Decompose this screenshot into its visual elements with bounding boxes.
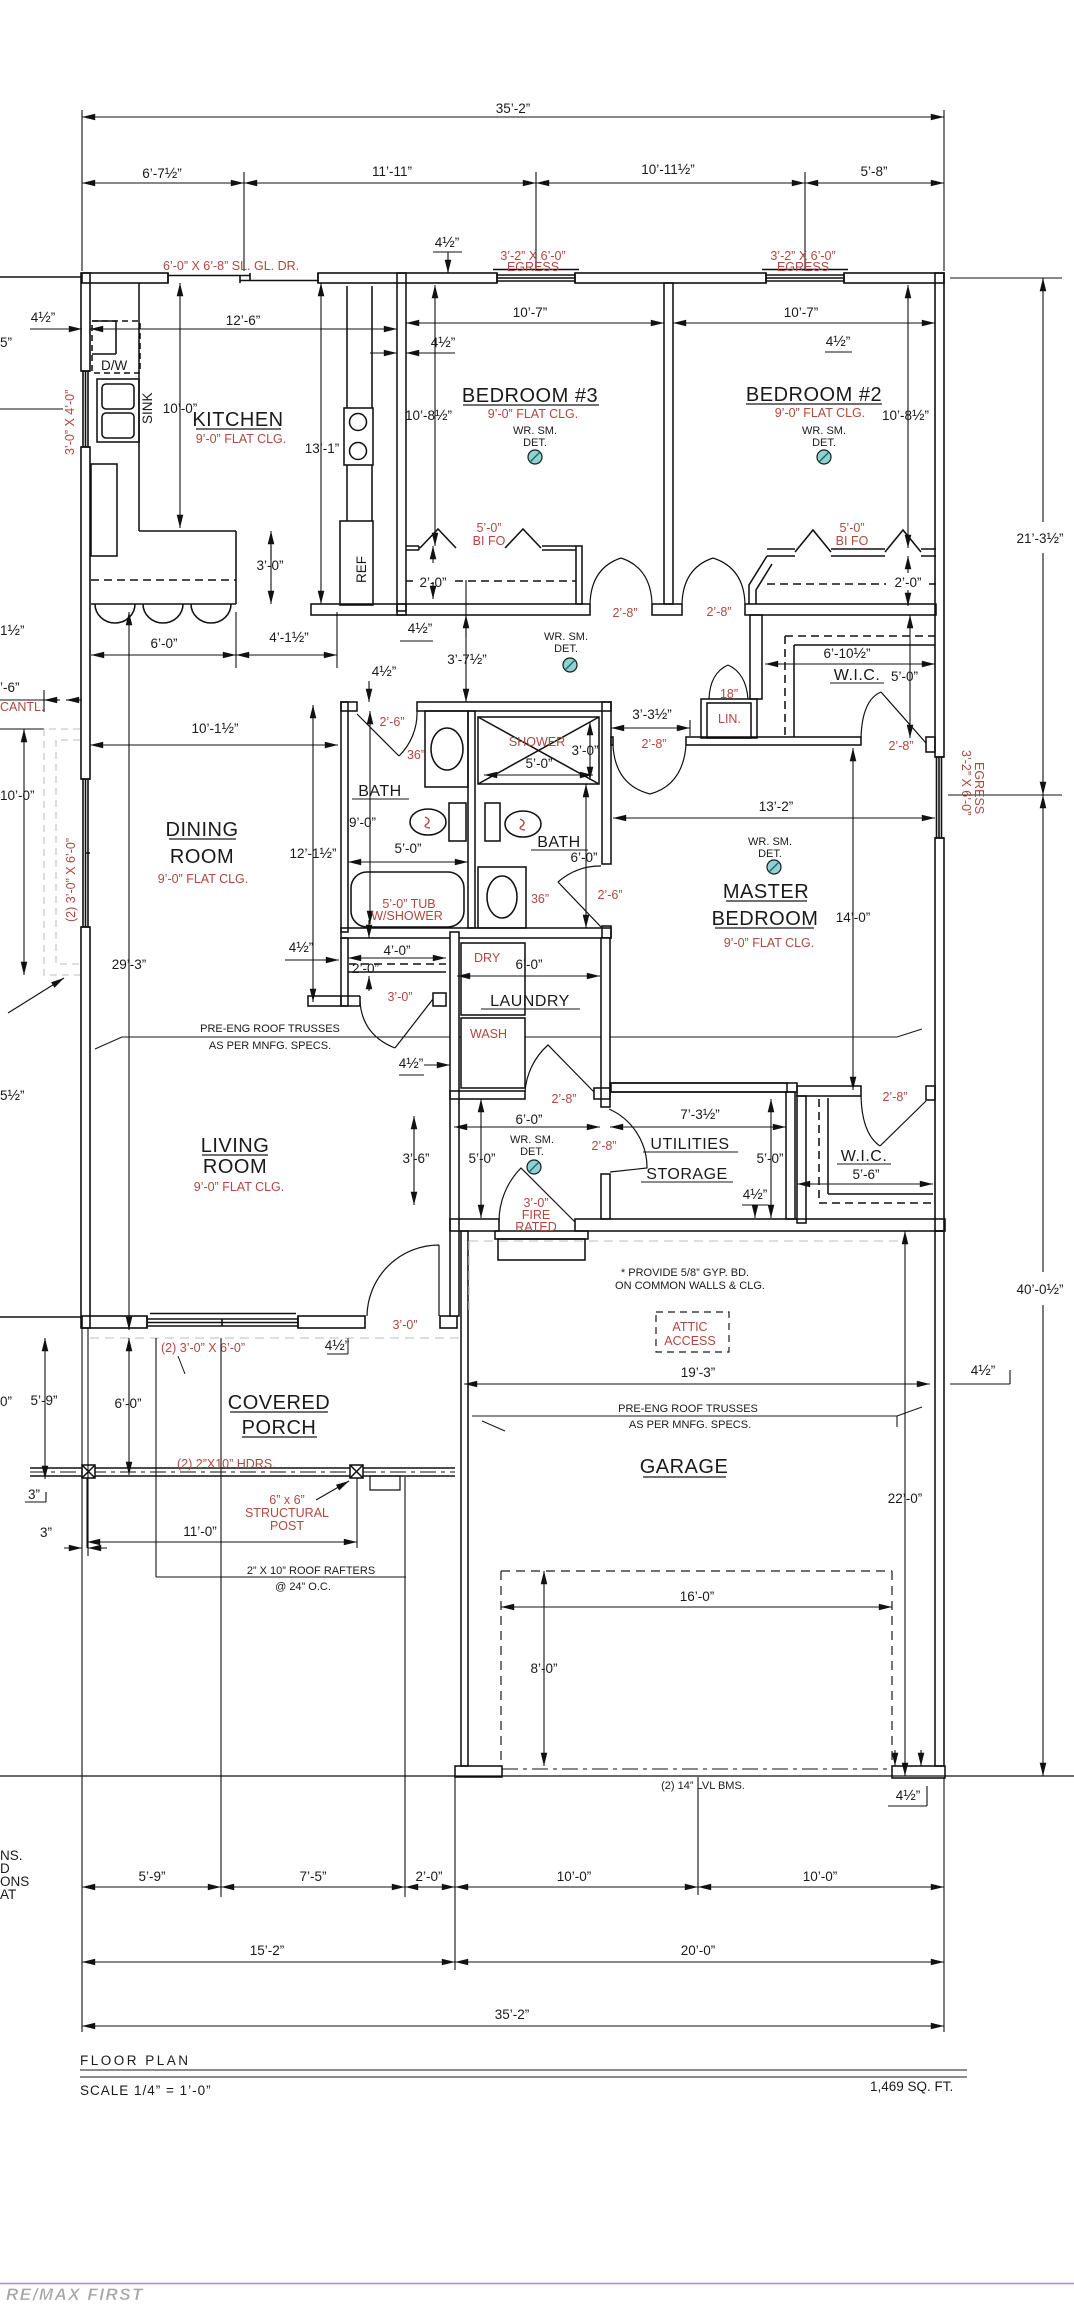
dim 13'-1" — [320, 283, 322, 604]
svg-text:9’-0”: 9’-0” — [349, 815, 376, 830]
counter left run — [139, 283, 236, 531]
bed3 door arch — [590, 558, 652, 604]
svg-text:LIVING: LIVING — [201, 1135, 270, 1157]
svg-text:DET.: DET. — [523, 437, 547, 449]
svg-text:7’-3½”: 7’-3½” — [680, 1106, 720, 1123]
exterior top wall — [82, 273, 168, 283]
svg-text:2’-0”: 2’-0” — [415, 1869, 442, 1884]
dim 10'-8.5 bed2 — [907, 285, 909, 548]
svg-text:WASH: WASH — [470, 1027, 507, 1041]
svg-text:BI FO: BI FO — [473, 534, 506, 548]
svg-text:STRUCTURAL: STRUCTURAL — [245, 1506, 329, 1520]
svg-text:3”: 3” — [40, 1525, 52, 1540]
svg-text:3’-2” X 6’-0”: 3’-2” X 6’-0” — [959, 750, 973, 815]
svg-text:10’-0”: 10’-0” — [557, 1869, 592, 1884]
svg-text:5’-0”: 5’-0” — [468, 1151, 495, 1166]
bath1 5'-0 dim — [348, 861, 468, 863]
svg-text:BEDROOM #3: BEDROOM #3 — [462, 385, 598, 407]
utilities north wall — [610, 1083, 787, 1092]
svg-text:10’-7”: 10’-7” — [784, 305, 819, 320]
svg-text:3’-0”: 3’-0” — [387, 990, 412, 1004]
svg-text:BI FO: BI FO — [836, 534, 869, 548]
svg-text:11’-0”: 11’-0” — [183, 1524, 217, 1539]
svg-text:5”: 5” — [0, 335, 12, 350]
svg-text:GARAGE: GARAGE — [640, 1456, 729, 1478]
svg-text:3”: 3” — [28, 1487, 40, 1502]
living/laundry wall — [450, 932, 459, 1316]
svg-text:LAUNDRY: LAUNDRY — [490, 993, 570, 1010]
kitchen lower cabinet — [91, 464, 117, 556]
bed2 door arch — [682, 558, 745, 604]
hall closet door — [360, 999, 433, 1048]
svg-text:KITCHEN: KITCHEN — [192, 409, 283, 431]
svg-text:COVERED: COVERED — [228, 1392, 330, 1414]
WIC2 door — [861, 1096, 926, 1146]
laundry appliances — [461, 943, 525, 1015]
laundry door — [525, 1045, 594, 1092]
smoke detector bed2 — [817, 450, 831, 464]
garage east wall — [935, 1231, 944, 1766]
rear grade line full width — [0, 1775, 1074, 1777]
svg-text:BATH: BATH — [358, 783, 401, 800]
svg-text:DET.: DET. — [554, 643, 578, 655]
laundry dims — [457, 975, 600, 977]
bed3 closet 2'-0 dim — [432, 546, 434, 563]
kitchen/bed3 wall — [397, 273, 406, 611]
svg-text:5’-6”: 5’-6” — [852, 1167, 879, 1182]
svg-text:WR. SM.: WR. SM. — [544, 631, 588, 643]
svg-text:2” X 10” ROOF RAFTERS: 2” X 10” ROOF RAFTERS — [247, 1565, 375, 1577]
svg-text:3’-0”: 3’-0” — [571, 743, 598, 758]
svg-text:2’-6”: 2’-6” — [597, 888, 622, 902]
range — [344, 408, 373, 465]
svg-text:DET.: DET. — [520, 1146, 544, 1158]
WIC1 dims — [765, 663, 935, 665]
dim 10'-8.5 bed3 — [434, 285, 436, 546]
svg-text:RE/MAX FIRST: RE/MAX FIRST — [6, 2285, 144, 2304]
svg-text:FLOOR PLAN: FLOOR PLAN — [80, 2053, 191, 2068]
kitchen counter east edges — [347, 286, 372, 521]
kitchen south wall stub — [311, 604, 406, 615]
WIC2 dim — [797, 1183, 933, 1185]
svg-text:SHOWER: SHOWER — [509, 735, 565, 749]
svg-text:3’-3½”: 3’-3½” — [632, 706, 672, 723]
svg-text:AS PER MNFG. SPECS.: AS PER MNFG. SPECS. — [629, 1419, 751, 1431]
garage bottom wall — [455, 1766, 945, 1778]
svg-text:36”: 36” — [531, 892, 549, 906]
svg-text:9’-0” FLAT CLG.: 9’-0” FLAT CLG. — [488, 407, 579, 421]
bath2 6'-0 dim — [585, 784, 587, 928]
cantilever dim 1'-6" — [0, 690, 44, 712]
bath2 vanity — [478, 867, 526, 928]
dim 10'-7" bed2 — [673, 322, 935, 324]
svg-text:6’-0”: 6’-0” — [114, 1396, 141, 1411]
svg-text:AS PER MNFG. SPECS.: AS PER MNFG. SPECS. — [209, 1040, 331, 1052]
watermark — [0, 2283, 1074, 2285]
sliding glass door — [168, 273, 318, 283]
svg-text:5’-8”: 5’-8” — [860, 164, 887, 179]
dim 10'-7" bed3 — [406, 322, 664, 324]
bed3 closet front wall — [406, 546, 576, 550]
svg-text:12’-6”: 12’-6” — [226, 313, 261, 328]
svg-text:6’-7½”: 6’-7½” — [142, 165, 182, 182]
laundry south wall — [450, 1091, 525, 1099]
closet bottom wall + door jambs — [341, 996, 360, 1006]
svg-text:RATED: RATED — [515, 1220, 556, 1234]
svg-text:4½”: 4½” — [743, 1186, 768, 1203]
svg-text:6” x 6”: 6” x 6” — [269, 1493, 304, 1507]
svg-text:5’-0”: 5’-0” — [394, 841, 421, 856]
svg-text:9’-0” FLAT CLG.: 9’-0” FLAT CLG. — [196, 432, 287, 446]
svg-text:SCALE 1/4” = 1’-0”: SCALE 1/4” = 1’-0” — [80, 2083, 212, 2098]
svg-text:4½”: 4½” — [408, 620, 433, 637]
master west / bath east wall — [602, 702, 611, 864]
svg-text:10’-11½”: 10’-11½” — [641, 161, 695, 178]
svg-text:21’-3½”: 21’-3½” — [1016, 530, 1063, 547]
svg-text:STORAGE: STORAGE — [646, 1166, 727, 1183]
svg-text:10’-8½”: 10’-8½” — [882, 407, 929, 424]
svg-text:(2) 14” LVL BMS.: (2) 14” LVL BMS. — [661, 1780, 745, 1792]
svg-text:DINING: DINING — [166, 819, 239, 841]
svg-text:4½”: 4½” — [435, 234, 460, 251]
shower dims — [484, 774, 593, 776]
svg-text:3’-7½”: 3’-7½” — [447, 651, 487, 668]
svg-text:2’-8”: 2’-8” — [551, 1092, 576, 1106]
bath1 door leaf+arc — [357, 711, 417, 756]
svg-text:10’-0”: 10’-0” — [803, 1869, 838, 1884]
svg-text:8’-0”: 8’-0” — [530, 1661, 557, 1676]
linen door arch — [709, 665, 748, 699]
svg-text:4½”: 4½” — [399, 1055, 424, 1072]
neighbor party wall line top-left — [0, 276, 82, 278]
svg-text:18”: 18” — [720, 687, 738, 701]
hall dims — [454, 1126, 600, 1128]
svg-text:6’-0”: 6’-0” — [570, 850, 597, 865]
svg-text:W/SHOWER: W/SHOWER — [371, 909, 443, 923]
fire door threshold — [495, 1231, 588, 1239]
11'-0" dim — [87, 1541, 357, 1543]
dim extension lines top — [82, 110, 944, 271]
svg-text:(2) 3’-0” X 6’-0”: (2) 3’-0” X 6’-0” — [161, 1341, 245, 1355]
svg-text:12’-1½”: 12’-1½” — [289, 845, 336, 862]
bath1 tub — [351, 872, 464, 927]
WIC1 shelf lines — [794, 645, 935, 737]
bath west wall — [341, 702, 348, 932]
bed3 closet dashed shelf — [406, 580, 576, 582]
svg-text:9’-0” FLAT CLG.: 9’-0” FLAT CLG. — [158, 872, 249, 886]
utilities east wall — [786, 1092, 795, 1219]
svg-text:5’-0”: 5’-0” — [756, 1151, 783, 1166]
svg-text:5’-0”: 5’-0” — [891, 669, 918, 684]
WIC1 dashed — [785, 636, 935, 737]
svg-text:13’-1”: 13’-1” — [305, 441, 340, 456]
svg-text:10’-8½”: 10’-8½” — [405, 407, 452, 424]
grey porch ceiling dashes — [90, 1241, 905, 1338]
WIC1 door — [861, 692, 926, 743]
toilet squiggles — [425, 817, 430, 828]
svg-text:DRY: DRY — [474, 951, 501, 965]
svg-text:11’-11”: 11’-11” — [372, 164, 412, 179]
rafter bracket — [156, 1576, 406, 1578]
svg-text:PRE-ENG ROOF TRUSSES: PRE-ENG ROOF TRUSSES — [618, 1403, 758, 1415]
bed2 closet front wall — [767, 549, 936, 556]
svg-text:3’-0”: 3’-0” — [392, 1318, 417, 1332]
attic access — [656, 1312, 729, 1352]
svg-text:2’-8”: 2’-8” — [888, 739, 913, 753]
stub wall LR corner — [308, 996, 341, 1006]
svg-text:3’-0” X 4’-0”: 3’-0” X 4’-0” — [63, 390, 77, 455]
kitchen window — [81, 371, 90, 447]
exterior right wall — [935, 273, 944, 757]
bath1 vanity — [425, 711, 468, 787]
shower — [478, 717, 599, 784]
utilities door — [609, 1109, 647, 1172]
laundry-utilities wall column — [601, 938, 610, 1107]
svg-text:LIN.: LIN. — [718, 712, 741, 726]
svg-text:35’-2”: 35’-2” — [496, 101, 531, 116]
left 10'-0" dim — [23, 729, 25, 975]
bed3 closet right return — [576, 546, 582, 604]
kitchen window leader — [0, 408, 63, 410]
svg-text:DET.: DET. — [758, 848, 782, 860]
fire door — [499, 1168, 575, 1222]
porch beam — [30, 1465, 455, 1490]
svg-text:2’-8”: 2’-8” — [882, 1090, 907, 1104]
bath2 door to master — [558, 866, 601, 927]
dim 10'-0" kitchen — [179, 283, 181, 528]
svg-text:16’-0”: 16’-0” — [680, 1589, 715, 1604]
master door arch — [613, 745, 686, 794]
svg-text:35’-2”: 35’-2” — [495, 2007, 530, 2022]
dim 12'-6" — [90, 328, 397, 330]
master dims — [613, 817, 935, 819]
svg-text:ROOM: ROOM — [203, 1156, 267, 1178]
front wall living room — [82, 1316, 147, 1328]
svg-text:4½”: 4½” — [971, 1362, 996, 1379]
svg-text:ROOM: ROOM — [170, 846, 234, 868]
svg-text:15’-2”: 15’-2” — [250, 1943, 285, 1958]
svg-text:WR. SM.: WR. SM. — [513, 425, 557, 437]
svg-text:5’-0”: 5’-0” — [839, 521, 864, 535]
svg-text:MASTER: MASTER — [723, 881, 809, 903]
WIC2 west wall — [797, 1096, 806, 1223]
bed2 bifold doors — [795, 530, 921, 552]
exterior left wall — [81, 273, 90, 371]
neighbor front wall line — [0, 1316, 82, 1318]
REF — [340, 521, 373, 605]
svg-text:36”: 36” — [407, 748, 425, 762]
svg-text:BEDROOM: BEDROOM — [712, 908, 819, 930]
svg-text:3’-6”: 3’-6” — [402, 1151, 429, 1166]
svg-text:2’-0”: 2’-0” — [419, 575, 446, 590]
svg-text:5½”: 5½” — [0, 1087, 25, 1104]
svg-text:W.I.C.: W.I.C. — [834, 667, 881, 684]
bed2 closet chamfer — [749, 556, 772, 604]
svg-text:BATH: BATH — [537, 834, 580, 851]
front door arc — [367, 1245, 439, 1316]
svg-text:5’-9”: 5’-9” — [138, 1869, 165, 1884]
garage west wall — [461, 1231, 468, 1766]
bottom dim row 1 — [82, 1887, 944, 2026]
svg-text:4½”: 4½” — [289, 939, 314, 956]
small garage stub right of porch — [370, 1476, 400, 1490]
svg-text:19’-3”: 19’-3” — [681, 1365, 716, 1380]
svg-text:ATTIC: ATTIC — [672, 1320, 707, 1334]
right side dims 21'-3.5 / 40'-0.5 — [948, 278, 1062, 795]
dim row2 lines — [82, 182, 244, 184]
svg-text:2’-8”: 2’-8” — [591, 1139, 616, 1153]
svg-text:ACCESS: ACCESS — [664, 1334, 715, 1348]
svg-text:6’-0” X 6’-8” SL. GL. DR.: 6’-0” X 6’-8” SL. GL. DR. — [163, 259, 299, 273]
bath1 9'-0 dim — [369, 711, 371, 924]
svg-text:2’-6”: 2’-6” — [379, 715, 404, 729]
svg-text:1,469 SQ. FT.: 1,469 SQ. FT. — [870, 2079, 953, 2094]
bed2 closet dashed shelf — [767, 583, 936, 585]
svg-text:6’-0”: 6’-0” — [515, 1112, 542, 1127]
svg-text:10’-7”: 10’-7” — [513, 305, 548, 320]
svg-text:2’-8”: 2’-8” — [706, 605, 731, 619]
3" dims — [25, 1492, 46, 1502]
island 3'-0" depth dim — [270, 545, 272, 604]
svg-text:4½”: 4½” — [431, 334, 456, 351]
svg-text:4½”: 4½” — [896, 1787, 921, 1804]
svg-text:6’-10½”: 6’-10½” — [823, 645, 870, 662]
svg-text:20’-0”: 20’-0” — [681, 1943, 716, 1958]
dining window (2) 3-0 x 6-0 — [81, 779, 90, 927]
svg-text:4½”: 4½” — [325, 1337, 350, 1354]
svg-text:5’-0”: 5’-0” — [525, 756, 552, 771]
hall north wall (bedrooms south) — [397, 604, 590, 615]
svg-text:2’-0”: 2’-0” — [894, 575, 921, 590]
sink — [97, 379, 139, 442]
svg-text:(2) 3’-0” X 6’-0”: (2) 3’-0” X 6’-0” — [64, 838, 78, 922]
master egress window right — [935, 757, 944, 838]
window bedroom3 egress — [493, 270, 579, 284]
svg-text:@ 24” O.C.: @ 24” O.C. — [275, 1581, 331, 1593]
dim 4-1/2 kitchen wall — [370, 352, 397, 354]
bed2 closet 2'-0 dim — [907, 556, 909, 573]
svg-text:REF: REF — [354, 556, 369, 583]
bed3 bifold doors — [420, 529, 541, 548]
smoke detector bed3 — [528, 450, 542, 464]
svg-text:4½”: 4½” — [31, 309, 56, 326]
svg-text:3’-0”: 3’-0” — [256, 558, 283, 573]
svg-text:9’-0” FLAT CLG.: 9’-0” FLAT CLG. — [194, 1180, 285, 1194]
stool arcs — [95, 604, 231, 623]
svg-text:EGRESS: EGRESS — [972, 762, 986, 814]
garage door dashed — [501, 1571, 892, 1766]
svg-text:22’-0”: 22’-0” — [888, 1491, 923, 1506]
svg-text:2’-8”: 2’-8” — [612, 606, 637, 620]
garage north wall — [450, 1219, 499, 1231]
dining dims — [90, 744, 338, 746]
svg-text:5’-0”: 5’-0” — [476, 521, 501, 535]
svg-text:13’-2”: 13’-2” — [759, 799, 794, 814]
svg-text:AT: AT — [0, 1887, 16, 1902]
svg-text:40’-0½”: 40’-0½” — [1016, 1281, 1063, 1298]
svg-text:PRE-ENG ROOF TRUSSES: PRE-ENG ROOF TRUSSES — [200, 1023, 340, 1035]
extension verticals below porch — [82, 1328, 944, 2032]
svg-text:PORCH: PORCH — [242, 1417, 317, 1439]
bath1/shower divider wall — [468, 711, 475, 928]
garage truss line — [472, 1407, 922, 1431]
svg-text:CANTL.: CANTL. — [0, 700, 44, 714]
svg-text:4½”: 4½” — [826, 333, 851, 350]
svg-text:14’-0”: 14’-0” — [836, 910, 871, 925]
svg-text:5’-9”: 5’-9” — [30, 1393, 57, 1408]
hall 3'-7.5" dim — [465, 615, 467, 702]
svg-text:7’-5”: 7’-5” — [299, 1869, 326, 1884]
bath2 toilet — [485, 803, 500, 841]
svg-text:0”: 0” — [0, 1394, 12, 1409]
svg-text:’-6”: ’-6” — [0, 680, 20, 695]
svg-text:10’-0”: 10’-0” — [0, 788, 35, 803]
svg-text:POST: POST — [270, 1519, 304, 1533]
svg-text:WR. SM.: WR. SM. — [802, 425, 846, 437]
window bedroom2 egress — [762, 270, 848, 284]
svg-text:4’-1½”: 4’-1½” — [269, 629, 309, 646]
svg-text:6’-0”: 6’-0” — [150, 636, 177, 651]
svg-text:ON COMMON WALLS & CLG.: ON COMMON WALLS & CLG. — [615, 1280, 765, 1292]
svg-text:2’-0”: 2’-0” — [352, 961, 379, 976]
svg-text:1½”: 1½” — [0, 622, 25, 639]
bath1 toilet — [449, 803, 466, 841]
bath block bottom wall — [341, 928, 611, 938]
master south wall — [611, 1083, 797, 1092]
svg-text:W.I.C.: W.I.C. — [841, 1148, 888, 1165]
svg-text:D/W: D/W — [101, 358, 128, 373]
bath block top wall — [341, 702, 357, 711]
svg-text:29’-3”: 29’-3” — [112, 957, 147, 972]
linen closet — [701, 699, 757, 738]
WIC2 shelves — [828, 1098, 933, 1194]
svg-text:4½”: 4½” — [372, 663, 397, 680]
dim 35'-2" top — [82, 116, 944, 118]
svg-text:SINK: SINK — [140, 392, 155, 424]
svg-text:6’-0”: 6’-0” — [515, 957, 542, 972]
4.5 arrows — [368, 681, 370, 702]
left 4-1/2 dim — [30, 328, 82, 330]
svg-text:WR. SM.: WR. SM. — [510, 1134, 554, 1146]
dashed cantilever bay — [44, 729, 80, 975]
hall 3'-3.5 dim — [611, 727, 690, 729]
D/W dashed — [92, 321, 140, 373]
svg-text:WR. SM.: WR. SM. — [748, 836, 792, 848]
svg-text:EGRESS: EGRESS — [777, 260, 829, 274]
hall closet below bath — [341, 938, 348, 1006]
4-1/2 wall dim top — [433, 252, 462, 273]
svg-text:EGRESS: EGRESS — [507, 260, 559, 274]
svg-text:(2) 2”X10” HDRS.: (2) 2”X10” HDRS. — [177, 1457, 276, 1471]
hall/WIC1 divider — [750, 615, 762, 699]
svg-text:UTILITIES: UTILITIES — [650, 1136, 729, 1153]
svg-text:DET.: DET. — [812, 437, 836, 449]
posts — [82, 1465, 95, 1478]
svg-text:9’-0” FLAT CLG.: 9’-0” FLAT CLG. — [724, 936, 815, 950]
bed2/bed3 divider wall — [664, 283, 673, 604]
svg-text:10’-1½”: 10’-1½” — [191, 720, 238, 737]
svg-text:2’-8”: 2’-8” — [641, 737, 666, 751]
leader to bay — [8, 978, 64, 1013]
island — [91, 531, 236, 604]
island dims — [91, 654, 236, 656]
master north wall — [686, 737, 861, 745]
svg-text:9’-0” FLAT CLG.: 9’-0” FLAT CLG. — [775, 406, 866, 420]
svg-text:BEDROOM #2: BEDROOM #2 — [746, 384, 882, 406]
front windows (2) 3-0x6-0 — [147, 1314, 298, 1329]
svg-text:4’-0”: 4’-0” — [383, 943, 410, 958]
svg-text:* PROVIDE 5/8” GYP. BD.: * PROVIDE 5/8” GYP. BD. — [621, 1267, 749, 1279]
